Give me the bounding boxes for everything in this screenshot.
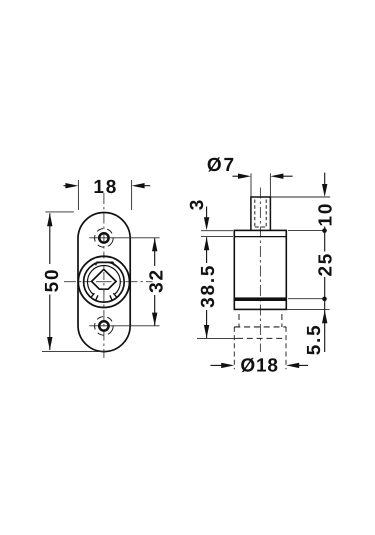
front view: vertical center line [103, 193, 105, 358]
front view: top screw hole center line [89, 237, 159, 239]
dimension 32: text [146, 268, 167, 293]
dimension 50: extension lines [42, 212, 105, 352]
side view: hidden square hole in stem [255, 200, 266, 228]
front view: bottom-left notch ticks [91, 293, 98, 301]
front view: bottom screw hole center line [89, 325, 159, 327]
front view: bottom screw hole countersink (hidden circle) [92, 314, 117, 339]
dimension 5.5: text [304, 323, 325, 355]
dimension 32: dimension line with arrows [152, 238, 157, 325]
dimension 10: text [315, 202, 336, 227]
dimension D7: left arrow [233, 174, 252, 179]
chain dimension: line segment with dot at groove [322, 277, 327, 352]
front view: plug circle (arc, open at bottom) [88, 265, 121, 294]
dimension D18: right arrow [286, 363, 308, 368]
side view: hidden step line [234, 326, 286, 328]
chain dimension: line segment with dot at body top [322, 227, 327, 252]
dimension 50: text [42, 268, 63, 293]
svg-text:3: 3 [187, 198, 208, 210]
dimension 5.5: up arrow [322, 310, 327, 323]
side view: hidden narrow insert lines [239, 314, 282, 327]
front view: top screw hole [99, 233, 108, 242]
front view: bottom-right notch ticks [110, 293, 117, 301]
dimension D18: left arrow [211, 363, 235, 368]
side view: flange step line [234, 236, 286, 238]
dimension 18: left arrow [64, 183, 79, 188]
dimension 38.5: bottom extension line [197, 337, 237, 339]
dimension 5.5: body bottom extension line [286, 308, 329, 310]
dimension 25: text [315, 252, 336, 277]
svg-text:10: 10 [315, 202, 336, 227]
side view: vertical center line [259, 188, 261, 353]
svg-text:5.5: 5.5 [304, 323, 325, 355]
svg-text:38.5: 38.5 [198, 264, 219, 308]
front view: cylinder inner circle [84, 258, 125, 302]
chain dimension: groove extension line [288, 298, 323, 300]
dimension 3: arrow [204, 207, 209, 231]
svg-text:32: 32 [146, 268, 167, 293]
side view: cylinder body outline [234, 230, 286, 309]
dimension 18: right arrow [132, 183, 151, 188]
dimension 18: extension lines [78, 180, 131, 210]
side view: hidden body bottom edges [234, 327, 286, 369]
svg-text:25: 25 [315, 252, 336, 277]
dimension 38.5: text [198, 264, 219, 308]
dimension D7: right arrow [270, 174, 292, 179]
svg-text:Ø7: Ø7 [207, 155, 236, 176]
side view: spindle stem outline [251, 197, 271, 230]
front view: bottom screw hole [99, 321, 108, 330]
front view: horizontal center line [64, 281, 153, 283]
svg-text:18: 18 [93, 177, 118, 198]
front view: oval faceplate outline [78, 213, 130, 352]
front view: cylinder outer circle [78, 256, 129, 307]
chain dimension: stem top extension line [271, 196, 330, 198]
dimension D7: text [207, 155, 236, 176]
dimension 50: dimension line with arrows [47, 213, 52, 350]
dimension D7: extension lines [251, 173, 270, 196]
dimension 3: extension lines [201, 231, 233, 237]
front view: square spindle hole (diamond) [92, 269, 116, 292]
chain dimension: body top extension line [288, 230, 323, 232]
front view: top screw hole countersink (hidden circle) [92, 226, 117, 251]
side view: retaining ring groove (black band) [234, 297, 286, 301]
dimension 38.5: dimension line with arrows [204, 237, 209, 338]
side view: hidden bottom line [237, 337, 286, 339]
dimension D18: text [240, 355, 278, 376]
front view: top flat chord with end ticks [96, 262, 114, 265]
svg-text:50: 50 [42, 268, 63, 293]
chain dimension: top arrow [322, 173, 327, 197]
dimension 3: text [187, 198, 208, 210]
svg-text:Ø18: Ø18 [240, 355, 278, 376]
dimension 18: text [93, 177, 118, 198]
